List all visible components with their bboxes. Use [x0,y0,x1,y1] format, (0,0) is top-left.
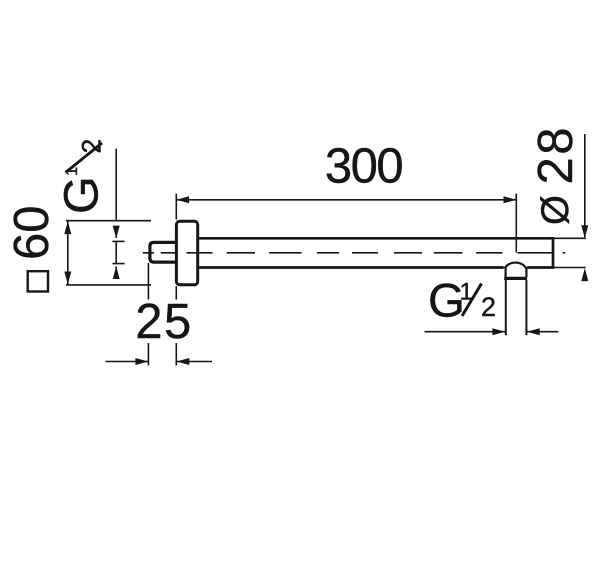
square symbol for 60x60 flange [28,271,48,291]
wall thread dimension upper tick [112,240,124,242]
dimension line 25 left part [106,361,149,363]
arrowhead lower of wall thread dimension [113,266,120,279]
arrowhead bottom of 60 dimension [64,272,71,285]
arrowhead right of outlet G1/2 dimension [527,328,540,335]
wall thread dimension lower arrow tail [115,266,117,278]
dimension line 60 [67,221,69,285]
extension line top of 60 dimension [66,220,151,222]
arrowhead right of 300 dimension [504,196,517,203]
outlet thick band [504,277,527,280]
arrowhead upper of wall thread dimension [113,226,120,239]
dimension line 300 [176,199,516,201]
arrowhead left of 25 dimension [135,358,148,365]
arrowhead left of outlet G1/2 dimension [492,328,505,335]
wall connection nipple outline [150,242,177,262]
arrowhead top of 60 dimension [64,221,71,234]
outlet pipe left wall [505,280,507,335]
outlet pipe right wall [525,280,527,335]
svg-text:G: G [55,176,109,214]
centerline of arm (dashed) [143,252,565,254]
svg-text:300: 300 [325,140,403,194]
dimension line 25 right part [177,361,212,363]
outlet collar right wall [525,268,527,278]
arrowhead left of 300 dimension [176,196,189,203]
wall thread dimension upper arrow tail [115,227,117,238]
svg-text:2: 2 [481,292,496,322]
svg-text:2: 2 [77,139,107,154]
svg-text:25: 25 [135,295,193,349]
outlet collar left wall [505,268,507,278]
dimension line outlet G1/2 left part [425,331,506,333]
arrowhead right of 25 dimension [177,358,190,365]
shower arm tube outline [198,238,553,267]
extension line right of 25 dimension lower segment [175,343,177,366]
svg-text:60: 60 [5,205,59,260]
extension line left of 25 dimension upper segment [147,263,149,300]
dimension line diameter 28 [584,134,586,237]
wall thread dimension line [115,241,117,263]
wall flange outline [176,221,197,285]
label G1/2 at wall thread (rotated) [55,139,109,214]
arrowhead top of diameter 28 dimension [581,225,588,238]
extension line left of 25 dimension lower segment [147,343,149,366]
svg-text:Ø28: Ø28 [529,125,583,225]
dimension line outlet G1/2 right part [527,331,558,333]
extension line left of 300 dimension (wall face) [175,194,177,220]
wall thread dimension lower tick [112,263,124,265]
extension line bottom of 60 dimension [66,284,151,286]
arrowhead bottom of diameter 28 dimension [581,268,588,281]
extension line right of 300 dimension (outlet axis) [515,194,517,253]
extension line right of 25 dimension upper segment [175,286,177,300]
label G1/2 at outlet [428,275,496,328]
extension line top of diameter 28 dimension [554,237,586,239]
outlet dome cap [505,263,527,269]
extension line bottom of diameter 28 dimension [554,267,586,269]
leader line from G1/2 label to wall thread dimension [115,149,117,220]
